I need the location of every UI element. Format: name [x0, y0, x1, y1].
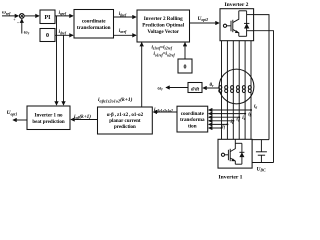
wire omega_r feedback stub — [21, 19, 23, 33]
wire inverter2 negative to outer DC bus — [254, 31, 274, 163]
label theta_r — [210, 83, 215, 88]
IGBT Q2 gate circle — [223, 24, 226, 27]
wire U_opt1 output — [13, 119, 27, 121]
svg-text:Prediction Optimal: Prediction Optimal — [142, 23, 185, 29]
wire inverter1 bottom DC terminal — [252, 162, 273, 164]
inverter 2 top rail — [239, 10, 247, 12]
capacitor C1 top stub — [260, 140, 262, 152]
wire theta_r machine to d/dt — [203, 87, 219, 89]
wire coordinate transformation to plane prediction — [153, 111, 177, 113]
label i_alphabeta(k+1) — [74, 113, 91, 120]
Inverter 1 box — [218, 139, 252, 168]
inverter 1 bottom rail — [235, 163, 242, 165]
label i_e — [231, 119, 234, 125]
winding coil a — [219, 86, 222, 93]
IGBT Q1 gate wire — [225, 154, 229, 156]
svg-text:transforma: transforma — [180, 117, 205, 123]
label i_betaref — [119, 12, 127, 17]
wire i_alphabeta(k+1) prediction to no beat — [71, 119, 98, 121]
svg-text:iβref: iβref — [119, 12, 127, 17]
label i_alphabeta z1z2o1o2 — [154, 107, 173, 113]
Inverter 2 rolling prediction block U3 — [137, 10, 190, 42]
svg-text:tion: tion — [188, 124, 197, 130]
label i_a — [254, 104, 257, 110]
svg-text:Uopt2: Uopt2 — [198, 16, 209, 22]
svg-text:iαβ(k+1): iαβ(k+1) — [74, 113, 91, 120]
IGBT Q2 emitter with arrow — [233, 29, 239, 36]
label i_o1ref i_o2ref — [154, 52, 176, 57]
svg-text:prediction: prediction — [114, 125, 136, 130]
svg-text:Inverter 2: Inverter 2 — [225, 2, 249, 8]
svg-text:−: − — [17, 21, 20, 26]
svg-text:transformation: transformation — [77, 25, 111, 31]
PI controller box — [40, 10, 55, 24]
winding coil f — [248, 86, 251, 93]
label omega_r output — [158, 85, 164, 91]
wire i_qref PI to coordinate transformation — [55, 15, 73, 17]
label U_opt1 — [7, 110, 18, 116]
wire omega_ref to summing junction — [2, 15, 18, 17]
svg-text:θr: θr — [210, 83, 215, 88]
label i_alpharef — [119, 29, 127, 34]
inverter 2 DC exit stubs — [247, 14, 254, 16]
winding coil e — [242, 86, 245, 93]
winding coil b — [225, 86, 228, 93]
wire omega_r output of d/dt — [166, 87, 188, 89]
coordinate transformation box U4 — [177, 106, 208, 132]
IGBT Q2 collector — [233, 11, 239, 23]
svg-text:0: 0 — [184, 65, 187, 71]
svg-text:iαβz1z2o1o2: iαβz1z2o1o2 — [154, 107, 173, 113]
IGBT Q2 gate wire — [227, 25, 231, 27]
svg-text:Inverter 2 Rolling: Inverter 2 Rolling — [144, 16, 183, 22]
svg-text:0: 0 — [46, 33, 49, 39]
diode D2 — [244, 11, 249, 37]
IGBT Q1 gate bar — [227, 150, 229, 160]
phase current tap e — [209, 123, 229, 125]
svg-text:UDC: UDC — [257, 167, 267, 173]
label i_f — [222, 124, 225, 130]
svg-text:d/dt: d/dt — [191, 87, 200, 93]
summing junction S1 — [19, 14, 24, 19]
svg-text:iαβz1z2o1o2(k+1): iαβz1z2o1o2(k+1) — [98, 96, 133, 103]
Inverter 2 box — [220, 9, 254, 41]
svg-text:iz1ref=iz2ref: iz1ref=iz2ref — [152, 45, 173, 50]
inverter 2 bottom rail — [239, 35, 247, 37]
svg-text:ia: ia — [254, 104, 257, 110]
plane current prediction box U5 — [98, 107, 153, 134]
wire U_opt2 to inverter 2 — [190, 22, 220, 24]
d/dt box — [188, 83, 202, 93]
capacitor C1 bottom stub — [260, 155, 262, 162]
wire i_dref zero box to coordinate transformation — [55, 34, 73, 36]
label U_DC — [257, 167, 267, 173]
wire summing junction to PI — [24, 15, 39, 17]
label i_d — [236, 117, 239, 123]
Inverter 1 no beat prediction box U6 — [27, 106, 70, 130]
svg-text:iqref: iqref — [59, 11, 67, 16]
IGBT Q1 body bar — [229, 149, 231, 161]
winding coil c — [231, 86, 234, 93]
wire prediction block up to rolling prediction block — [141, 43, 143, 107]
label i_z1ref i_z2ref — [152, 45, 173, 50]
label i_qref — [59, 11, 67, 16]
machine stator circle M1 — [219, 69, 254, 104]
svg-text:Inverter 1 no: Inverter 1 no — [35, 113, 63, 118]
phase current tap d — [209, 120, 235, 122]
wire i_betaref coordinate transformation to inverter2 block — [114, 16, 137, 18]
svg-text:α-β , z1-z2 , o1-o2: α-β , z1-z2 , o1-o2 — [107, 113, 144, 118]
wire i_alpharef coordinate transformation to inverter2 block — [114, 34, 137, 36]
wire Z2 up to rolling prediction block — [184, 43, 186, 59]
svg-text:ωr: ωr — [24, 29, 30, 35]
svg-text:Inverter 1: Inverter 1 — [219, 174, 243, 180]
phase current tap f — [209, 127, 223, 129]
phase current tap c — [209, 116, 241, 118]
node omega_ref input label — [2, 10, 11, 16]
capacitor C1 plates — [256, 152, 267, 155]
svg-text:io1ref=io2ref: io1ref=io2ref — [154, 52, 176, 57]
label i_alphabeta z1z2o1o2 (k+1) — [98, 96, 133, 103]
svg-text:iαref: iαref — [119, 29, 127, 34]
winding coil d — [237, 86, 240, 93]
diode D1 — [239, 143, 244, 164]
label U_opt2 — [198, 16, 209, 22]
wire tee i_qref down to no beat prediction — [56, 16, 58, 105]
svg-text:planar current: planar current — [109, 119, 141, 124]
svg-text:beat prediction: beat prediction — [32, 120, 64, 125]
IGBT Q2 body bar — [232, 20, 234, 32]
zero reference box Z2 — [178, 59, 192, 73]
svg-text:coordinate: coordinate — [82, 19, 106, 25]
phase current tap b — [209, 113, 246, 115]
svg-text:idref: idref — [59, 30, 67, 35]
IGBT Q1 emitter with arrow — [230, 158, 235, 164]
wire inverter2 positive to inner DC bus — [254, 15, 269, 140]
svg-text:Uopt1: Uopt1 — [7, 110, 18, 116]
phase current tap a — [209, 109, 252, 111]
label i_dref — [59, 30, 67, 35]
label i_b — [248, 111, 251, 117]
IGBT Q2 gate bar — [230, 21, 232, 31]
wire tee i_dref down to no beat prediction — [63, 35, 65, 105]
svg-text:coordinate: coordinate — [181, 111, 205, 117]
svg-text:ωr: ωr — [158, 85, 164, 91]
inverter 1 top rail — [235, 142, 242, 144]
node omega_r feedback label — [24, 29, 30, 35]
six phase wires inverter2 to inverter1 — [222, 41, 252, 140]
zero reference box Z1 — [40, 29, 55, 42]
svg-text:Voltage Vector: Voltage Vector — [147, 29, 179, 35]
IGBT Q1 collector — [230, 140, 235, 152]
wire inverter1 top DC terminal — [252, 139, 269, 141]
IGBT Q1 gate circle — [221, 153, 224, 156]
label i_c — [242, 115, 245, 121]
svg-text:ωref: ωref — [2, 10, 11, 16]
svg-text:PI: PI — [45, 15, 52, 21]
coordinate transformation box U2 — [74, 10, 114, 39]
